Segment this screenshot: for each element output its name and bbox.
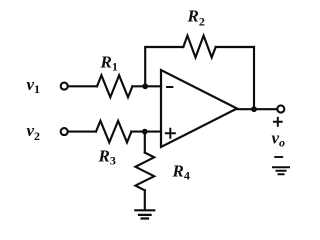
wire feedback right vertical — [253, 47, 255, 109]
wire feedback left vertical — [145, 47, 183, 86]
node B junction (non-inverting input) — [142, 129, 148, 135]
svg-text:v2: v2 — [27, 121, 41, 143]
wire v1 to R1 — [68, 85, 97, 87]
wire R1 to inverting node — [132, 85, 161, 87]
wire node B to R4 — [144, 132, 146, 153]
svg-text:R4: R4 — [172, 161, 190, 182]
resistor R2 — [183, 36, 215, 58]
plus polarity mark at output — [274, 118, 282, 126]
wire v2 to R3 — [68, 131, 96, 133]
ground at R4 — [135, 210, 154, 218]
resistor R3 — [96, 121, 131, 143]
svg-text:R1: R1 — [100, 53, 118, 74]
node A junction (inverting input) — [142, 83, 148, 89]
op-amp minus pin mark — [167, 86, 172, 88]
terminal v2 — [61, 128, 68, 135]
wire feedback right horizontal — [216, 46, 254, 48]
minus polarity mark at output — [275, 156, 282, 158]
terminal v1 — [61, 83, 68, 90]
resistor R4 — [135, 153, 154, 191]
op-amp plus pin mark — [166, 129, 175, 138]
svg-text:vo: vo — [272, 129, 286, 150]
op-amp U1 — [161, 70, 237, 147]
svg-text:R3: R3 — [98, 147, 116, 168]
ground at output — [273, 167, 289, 174]
resistor R1 — [97, 75, 132, 97]
node C junction (output) — [251, 106, 257, 112]
wire R3 to non-inverting node — [131, 131, 161, 133]
svg-text:R2: R2 — [187, 7, 205, 29]
wire R4 to ground — [144, 190, 146, 210]
svg-text:v1: v1 — [27, 75, 41, 96]
wire op-amp output to terminal — [236, 108, 277, 110]
terminal vo — [277, 105, 284, 112]
